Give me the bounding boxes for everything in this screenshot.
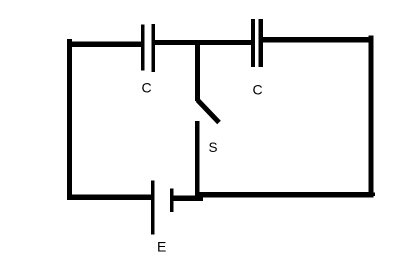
- wire: bottom-right corner nub: [373, 193, 375, 197]
- wire: top-left horizontal segment: [67, 42, 143, 48]
- wire: right vertical side: [369, 36, 374, 198]
- wire: top-middle horizontal segment: [152, 40, 253, 45]
- wire: middle vertical lower (switch to bottom wire): [195, 121, 200, 200]
- capacitor C2 (right) left plate: [251, 19, 255, 67]
- wire: bottom-right horizontal segment: [196, 192, 374, 198]
- battery E short plate (negative): [170, 189, 174, 213]
- wire: left vertical side: [67, 39, 72, 200]
- switch S blade (open, diagonal): [198, 100, 220, 123]
- svg-text:C: C: [253, 82, 263, 98]
- capacitor C2 (right) right plate: [259, 19, 264, 67]
- svg-text:S: S: [209, 140, 218, 155]
- capacitor C1 (left) right plate: [152, 24, 156, 72]
- svg-text:E: E: [157, 239, 166, 255]
- wire: bottom-middle horizontal segment (battery to junction): [170, 196, 203, 202]
- svg-text:C: C: [142, 80, 152, 96]
- wire: bottom-left horizontal segment: [67, 195, 153, 201]
- battery E long plate (positive): [151, 181, 155, 235]
- wire: top-right horizontal segment: [259, 37, 374, 43]
- capacitor C1 (left) left plate: [141, 25, 145, 71]
- wire: middle vertical upper (to switch): [195, 40, 200, 101]
